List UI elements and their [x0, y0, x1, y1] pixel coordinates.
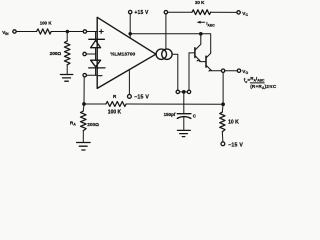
svg-text:½LM13700: ½LM13700	[110, 51, 135, 58]
ground (capacitor)	[177, 130, 190, 136]
node on +15V line (rail tap)	[128, 32, 132, 36]
wire diode chain bottom	[95, 68, 97, 75]
wire IABC terminal to 30K	[168, 11, 192, 13]
svg-text:150pf: 150pf	[164, 112, 176, 117]
terminal diode bias pin	[83, 52, 86, 55]
svg-text:+15 V: +15 V	[134, 10, 149, 16]
terminal - input	[83, 74, 86, 77]
resistor R1 100K (horizontal)	[37, 29, 52, 34]
wire + input terminal to op-amp	[87, 31, 98, 33]
svg-text:200Ω: 200Ω	[87, 122, 99, 127]
svg-text:30 K: 30 K	[195, 0, 205, 5]
svg-text:100 K: 100 K	[40, 21, 53, 26]
resistor 30K	[192, 10, 211, 15]
diode D2 (pointing down)	[89, 60, 105, 68]
wire between diodes	[95, 48, 97, 61]
terminal VIN	[13, 30, 16, 33]
resistor 10K	[220, 112, 225, 132]
wire buffer output down to feedback node	[222, 72, 224, 104]
terminal IABC input	[164, 11, 167, 14]
wire 30K to VC	[211, 11, 237, 13]
wire diode chain top	[95, 32, 97, 40]
wire OTA output pin to buffer input pin	[180, 91, 188, 93]
current source double circle	[156, 49, 172, 59]
node Y junction dot	[82, 102, 86, 106]
wire R1 to node X	[51, 31, 67, 33]
arrow IABC current direction	[197, 21, 205, 24]
wire node X down to 200 ohm	[66, 32, 68, 42]
wire 200 ohm to ground	[66, 65, 68, 75]
wire +15V rail to transistor collectors	[130, 34, 211, 52]
ground (RA)	[77, 143, 91, 151]
wire node Y down to RA	[82, 104, 85, 111]
wire capacitor to ground	[183, 117, 185, 130]
label - input	[98, 75, 102, 77]
capacitor C 150pf	[177, 114, 191, 119]
resistor 200 ohm input (vertical)	[64, 41, 70, 65]
diode D1 (pointing up)	[89, 39, 105, 47]
fraction bar	[250, 82, 264, 84]
svg-text:−15 V: −15 V	[228, 142, 243, 148]
terminal +15V	[129, 10, 132, 13]
terminal buffer input pin	[187, 90, 190, 93]
label + input	[99, 30, 103, 34]
wire Q2 emitter to buffer output pin	[212, 70, 222, 72]
transistor Q1 (darlington 1st)	[189, 34, 201, 62]
wire node Y to R feedback	[84, 103, 106, 105]
wire buffer input pin up to Q1 base	[188, 53, 190, 90]
terminal VC	[237, 11, 240, 14]
node rail / Q1 collector junction dot	[199, 32, 203, 36]
resistor R 100K feedback	[106, 102, 126, 107]
wire R to feedback node (crossover at cap)	[126, 103, 223, 105]
wire IABC down to current source	[165, 14, 167, 50]
wire +15V down to op-amp top edge	[129, 14, 131, 38]
wire - input down to node Y	[83, 77, 85, 104]
svg-text:10 K: 10 K	[228, 119, 239, 125]
formula fo = RA IABC / (R+RA)2piC	[244, 76, 277, 90]
node feedback junction dot	[221, 102, 225, 106]
terminal OTA output pin	[176, 90, 179, 93]
wire op-amp V- pin down	[128, 70, 130, 95]
terminal buffer output pin	[221, 69, 224, 72]
wire node X to + input terminal	[67, 31, 83, 33]
terminal -15V (op-amp V-)	[127, 95, 131, 99]
terminal -15V (pull down)	[221, 142, 225, 146]
terminal pin + input	[83, 30, 86, 33]
node C junction dot	[182, 90, 186, 94]
wire - input terminal to op-amp	[86, 74, 97, 76]
wire RA to ground	[82, 131, 84, 143]
ground (input divider)	[60, 75, 72, 82]
wire node C down to capacitor (crosses bus)	[183, 92, 185, 114]
resistor RA 200 ohm (vertical)	[81, 111, 87, 131]
wire OTA output right then down	[172, 54, 178, 90]
wire VIN to R1	[16, 31, 36, 33]
svg-text:−15 V: −15 V	[134, 94, 149, 100]
terminal VO	[237, 69, 240, 72]
transistor Q2 (darlington 2nd)	[200, 52, 212, 72]
wire 10K to -15V	[221, 132, 224, 142]
node X junction dot	[66, 30, 70, 34]
op-amp U1 1/2 LM13700 triangle	[97, 17, 156, 88]
svg-text:200Ω: 200Ω	[50, 51, 62, 56]
wire feedback node down to 10K	[221, 104, 224, 112]
wire buffer output pin to VO	[225, 70, 238, 72]
wire diode bias tap	[86, 53, 95, 55]
svg-text:100 K: 100 K	[108, 110, 122, 116]
